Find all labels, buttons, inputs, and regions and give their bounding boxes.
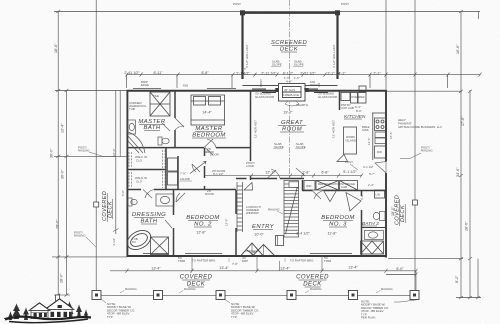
washer dryer — [168, 158, 178, 185]
bedroom3 / bath wall — [361, 190, 363, 196]
svg-text:19'-7": 19'-7" — [283, 111, 293, 115]
svg-text:GREAT: GREAT — [281, 120, 303, 126]
range — [375, 118, 386, 131]
bedroom door — [204, 139, 216, 148]
svg-text:COVERED: COVERED — [296, 275, 329, 281]
svg-text:LIN: LIN — [376, 193, 381, 197]
bedroom3 door swing — [312, 191, 324, 200]
svg-text:5'-0": 5'-0" — [121, 190, 125, 196]
right dim ticks — [459, 10, 480, 299]
svg-text:4'-1/2": 4'-1/2" — [112, 238, 116, 246]
svg-text:13'-4": 13'-4" — [280, 266, 290, 270]
center line of screened deck (dash-dot) — [289, 0, 291, 178]
svg-text:DECK: DECK — [280, 47, 299, 53]
svg-text:TO RAFTER BRG: TO RAFTER BRG — [192, 259, 216, 263]
svg-text:3' 1/2" WALL HGT: 3' 1/2" WALL HGT — [245, 44, 249, 68]
north wall extension left — [55, 90, 127, 92]
svg-text:POST: POST — [310, 83, 318, 87]
svg-text:36'-0": 36'-0" — [61, 169, 65, 179]
corner whirlpool tub — [128, 132, 145, 153]
svg-text:13'-4": 13'-4" — [348, 266, 358, 270]
right deck east edge — [414, 0, 416, 292]
svg-text:CAB: CAB — [341, 185, 347, 189]
svg-text:3'-1 1/2": 3'-1 1/2" — [363, 165, 374, 169]
svg-text:2'-4": 2'-4" — [368, 183, 374, 187]
svg-text:TUB: TUB — [129, 107, 135, 111]
left dim line A — [57, 12, 59, 296]
svg-text:BEDROOM: BEDROOM — [192, 133, 226, 139]
svg-text:7'-0": 7'-0" — [180, 172, 186, 176]
svg-text:10'-0": 10'-0" — [112, 149, 116, 156]
svg-text:RAILING: RAILING — [184, 287, 196, 291]
svg-text:2'-1": 2'-1" — [373, 72, 381, 76]
note block right — [361, 300, 419, 320]
svg-text:12'-1": 12'-1" — [265, 171, 275, 175]
hall direction arrow — [190, 162, 206, 174]
right deck mid post marker — [413, 200, 418, 205]
svg-text:GLASS DOOR: GLASS DOOR — [255, 95, 274, 99]
svg-text:DW: DW — [377, 150, 382, 154]
bath door swings — [162, 118, 184, 131]
work island — [344, 127, 357, 154]
svg-text:2'8 DOOR: 2'8 DOOR — [212, 169, 225, 173]
note block left — [101, 299, 135, 319]
svg-text:3'-4 1/2": 3'-4 1/2" — [296, 232, 310, 236]
left body — [31, 311, 48, 319]
svg-text:6X6: 6X6 — [183, 84, 189, 88]
vanity — [365, 231, 384, 240]
great room south wall — [236, 178, 247, 180]
svg-text:REFRIGERATOR: REFRIGERATOR — [318, 182, 341, 186]
svg-text:TILE: TILE — [153, 94, 159, 98]
svg-text:SLOPE: SLOPE — [274, 145, 284, 149]
tile shower X — [151, 237, 169, 255]
svg-text:MASTER: MASTER — [195, 126, 223, 132]
svg-text:16'-6": 16'-6" — [456, 44, 460, 54]
kitchen west upper wall — [339, 91, 341, 110]
svg-text:6'-0": 6'-0" — [396, 267, 404, 271]
bath inner wall — [362, 227, 386, 229]
svg-text:POST: POST — [341, 2, 349, 6]
wall master bath / bedroom — [174, 91, 176, 118]
svg-text:6'-4": 6'-4" — [355, 105, 361, 109]
left gable roof — [29, 303, 50, 311]
right dim line A — [460, 12, 462, 298]
laundry/hall east wall — [204, 148, 206, 156]
svg-text:SLOPE: SLOPE — [294, 63, 304, 67]
hall door swings — [192, 148, 305, 179]
svg-text:4'-0": 4'-0" — [286, 80, 292, 84]
mid post marker on left deck — [94, 202, 99, 207]
svg-text:7'-0": 7'-0" — [232, 262, 238, 266]
svg-text:8'-11": 8'-11" — [153, 71, 163, 75]
south wall — [127, 255, 387, 257]
svg-text:REF: REF — [359, 95, 365, 99]
svg-text:28'-6": 28'-6" — [465, 221, 469, 231]
svg-text:13'-4": 13'-4" — [219, 266, 229, 270]
svg-text:RAILING: RAILING — [78, 149, 90, 153]
svg-text:ISLAND: ISLAND — [346, 139, 356, 143]
svg-text:3' 1/2" WALL HGT: 3' 1/2" WALL HGT — [332, 44, 336, 68]
toilet top — [380, 212, 386, 221]
svg-text:POST: POST — [233, 2, 241, 6]
svg-text:RAILING: RAILING — [74, 234, 86, 238]
svg-text:GLASS DOOR: GLASS DOOR — [318, 95, 337, 99]
south wall extension left — [52, 256, 127, 258]
right gable roof — [45, 299, 74, 310]
svg-text:2'-11 1/2": 2'-11 1/2" — [261, 72, 277, 76]
svg-text:TO RAFTER BRG: TO RAFTER BRG — [290, 259, 314, 263]
svg-text:2'-11 1/2": 2'-11 1/2" — [124, 71, 140, 75]
note block mid — [225, 300, 259, 319]
screened deck label — [271, 40, 308, 53]
master bath vanity — [128, 120, 136, 134]
bedroom2 door swing — [176, 193, 185, 202]
svg-text:PER PLAN: PER PLAN — [361, 316, 375, 320]
svg-text:HEARTH: HEARTH — [296, 103, 308, 107]
svg-text:16'-6": 16'-6" — [389, 132, 393, 139]
deck corner post left — [240, 10, 245, 15]
svg-text:RAILING: RAILING — [125, 287, 137, 291]
svg-text:2'-8": 2'-8" — [302, 171, 310, 175]
porch dim line D — [119, 91, 121, 157]
svg-text:RAILING: RAILING — [310, 287, 322, 291]
svg-text:WIC: WIC — [306, 184, 312, 188]
svg-text:18'-0": 18'-0" — [391, 206, 395, 216]
dw — [375, 146, 386, 158]
windows/door — [34, 305, 72, 317]
svg-text:DRP: DRP — [242, 259, 248, 263]
wall master bedroom / great room — [250, 91, 252, 161]
chimney — [56, 295, 60, 301]
closet rod dashes right column — [163, 150, 166, 188]
svg-text:TRIM: TRIM — [324, 259, 332, 263]
right deck top edge extension — [386, 90, 462, 92]
dressing door swing — [143, 190, 172, 229]
big oval tub — [124, 227, 154, 254]
svg-text:EDGE: EDGE — [141, 83, 149, 87]
hall south wall / bedrooms north wall — [127, 189, 141, 191]
porch dim line C — [115, 91, 117, 235]
svg-text:46: 46 — [252, 250, 256, 254]
svg-text:13'-4": 13'-4" — [61, 123, 65, 133]
svg-text:NO. 3: NO. 3 — [329, 222, 347, 228]
svg-text:8'-0": 8'-0" — [356, 109, 362, 113]
bottom dim line — [110, 270, 416, 272]
deck south edge segments — [243, 85, 338, 87]
left dim line B — [66, 91, 68, 296]
svg-text:2'-1 1/2": 2'-1 1/2" — [236, 72, 250, 76]
svg-text:6'0: 6'0 — [132, 240, 136, 244]
laundry east wall — [177, 156, 179, 190]
porch roof line — [31, 312, 48, 314]
right dim stub C — [477, 259, 479, 298]
entry gable triangles — [241, 243, 275, 256]
vanity — [156, 194, 174, 206]
svg-text:CUP CAB: CUP CAB — [341, 106, 354, 110]
svg-text:POST: POST — [345, 160, 353, 164]
svg-text:DOOR: DOOR — [210, 153, 219, 157]
east wall — [385, 90, 387, 162]
svg-text:4'-1": 4'-1" — [338, 72, 346, 76]
svg-text:DOOR: DOOR — [205, 192, 214, 196]
svg-text:CLO: CLO — [136, 180, 143, 184]
south wall extension right — [388, 258, 463, 260]
svg-text:36" GAS: 36" GAS — [284, 88, 295, 92]
stair arrow — [286, 186, 298, 234]
svg-text:12' HGR HGT: 12' HGR HGT — [254, 120, 258, 138]
left deck top edge — [54, 155, 127, 157]
bottom deck railing line — [96, 295, 417, 297]
svg-text:12'-8": 12'-8" — [225, 219, 229, 226]
right dim line B — [469, 90, 471, 298]
bed — [191, 95, 225, 125]
svg-text:RAILING: RAILING — [381, 287, 393, 291]
bedroom3 area north walls — [302, 190, 312, 192]
svg-text:6'-0": 6'-0" — [360, 194, 364, 200]
svg-text:WINDOW: WINDOW — [246, 211, 259, 215]
bottom right tick — [456, 297, 481, 299]
svg-text:TYP.: TYP. — [231, 315, 237, 319]
west wall — [126, 90, 128, 257]
roof edge shading — [31, 299, 73, 310]
LIN box top — [375, 190, 385, 198]
svg-text:13'-6": 13'-6" — [367, 138, 371, 145]
closet divider walls — [127, 169, 166, 171]
wardrobe closets row — [304, 181, 358, 191]
svg-text:SLOPE: SLOPE — [272, 63, 282, 67]
short verticals below dim line — [126, 75, 128, 88]
svg-text:ROOM: ROOM — [282, 127, 302, 133]
svg-text:36'-0": 36'-0" — [50, 148, 54, 158]
pine trees left — [8, 303, 29, 320]
left deck west edge — [95, 0, 97, 291]
svg-text:LAUND: LAUND — [180, 177, 190, 181]
svg-text:28'-0": 28'-0" — [60, 273, 64, 283]
east wall extension up — [385, 0, 387, 90]
slab labels in deck — [271, 60, 304, 67]
counter edge — [344, 113, 387, 160]
right top stub — [478, 12, 480, 20]
svg-text:RAILING: RAILING — [268, 208, 280, 212]
ticks — [126, 73, 129, 77]
top extension line — [54, 11, 480, 13]
svg-text:BEDROOM: BEDROOM — [186, 215, 220, 221]
svg-text:17'-6": 17'-6" — [461, 116, 465, 126]
ground swoosh — [5, 317, 91, 320]
svg-text:TYP.: TYP. — [107, 315, 113, 319]
svg-text:SINK: SINK — [362, 128, 369, 132]
svg-text:COVERED: COVERED — [180, 275, 213, 281]
svg-text:34'-6": 34'-6" — [456, 167, 460, 177]
wall under master bath/bedroom — [127, 147, 204, 149]
svg-text:5'-1 1/2": 5'-1 1/2" — [343, 170, 357, 174]
svg-text:TRIM: TRIM — [178, 259, 186, 263]
svg-text:12'-8": 12'-8" — [196, 231, 206, 235]
left dim ticks — [54, 10, 70, 297]
bottom dim line right part — [386, 274, 416, 276]
svg-text:18'-6": 18'-6" — [54, 43, 58, 53]
tile shower with X — [150, 92, 170, 116]
svg-text:8'-2": 8'-2" — [455, 275, 459, 283]
bedroom2 east wall — [235, 190, 237, 214]
linen X box — [361, 241, 384, 254]
svg-text:FIREPLACE: FIREPLACE — [283, 93, 299, 97]
svg-text:8'-8": 8'-8" — [201, 71, 209, 75]
svg-text:BEDROOM: BEDROOM — [321, 215, 355, 221]
svg-text:OVEN: OVEN — [351, 95, 359, 99]
svg-text:1'-6": 1'-6" — [294, 76, 300, 80]
svg-text:10'-0": 10'-0" — [254, 233, 264, 237]
stairs east / bedroom3 west wall — [302, 180, 304, 191]
pine trees right — [66, 301, 89, 318]
fireplace — [279, 84, 306, 102]
door wedge near entry NW — [244, 183, 253, 191]
svg-text:6'-8": 6'-8" — [321, 171, 329, 175]
svg-text:14'-4": 14'-4" — [202, 111, 212, 115]
svg-text:DRESSING: DRESSING — [132, 212, 166, 218]
toilet — [128, 198, 132, 206]
svg-text:2'-1": 2'-1" — [327, 72, 335, 76]
sliding door symbols on wall — [252, 89, 328, 93]
svg-text:ARTISAN HOME BUILDERS, LLC: ARTISAN HOME BUILDERS, LLC — [398, 125, 442, 129]
stair newel box — [276, 236, 284, 246]
svg-text:12' HGR HGT: 12' HGR HGT — [332, 120, 336, 138]
master bath toilet — [158, 137, 162, 145]
svg-text:RAILING: RAILING — [421, 149, 433, 153]
stair top landing box — [289, 182, 299, 188]
upper cabinets / ref — [341, 86, 366, 103]
svg-text:13'-4": 13'-4" — [151, 266, 161, 270]
house body — [29, 295, 74, 319]
svg-text:11'-8": 11'-8" — [327, 232, 337, 236]
bath door wedges — [324, 191, 362, 212]
entry west railing ticks — [237, 182, 243, 232]
svg-text:SLOPE: SLOPE — [296, 145, 306, 149]
north wall — [127, 90, 387, 92]
svg-text:CLO: CLO — [136, 159, 143, 163]
svg-text:SCREENED: SCREENED — [271, 40, 308, 46]
bottom dim ticks — [126, 256, 418, 292]
dressing bath / bedroom2 wall — [173, 190, 175, 215]
right body — [47, 310, 72, 319]
svg-text:POST: POST — [259, 79, 263, 87]
svg-text:BATH: BATH — [140, 219, 157, 225]
svg-text:NO. 2: NO. 2 — [194, 222, 212, 228]
svg-text:6'-7": 6'-7" — [369, 172, 375, 176]
svg-text:2'-11 1/2": 2'-11 1/2" — [300, 72, 316, 76]
svg-text:28'-0": 28'-0" — [56, 219, 60, 229]
deck corner post right — [335, 10, 340, 15]
svg-text:LOAD: LOAD — [246, 164, 254, 168]
